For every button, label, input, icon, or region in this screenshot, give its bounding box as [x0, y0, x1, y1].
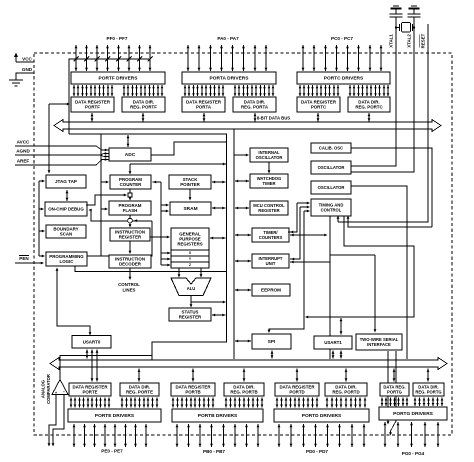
power pin VCC [14, 53, 34, 63]
block TWO-WIRE SERIAL INTERFACE [356, 334, 402, 350]
pin label PF0-PF7 [107, 36, 128, 41]
wire PORTA data register to data bus [203, 113, 206, 122]
wire TWI to port D pins [387, 351, 390, 425]
block DATA REGISTER PORTA [182, 97, 225, 112]
svg-text:REGISTER: REGISTER [258, 208, 279, 213]
block PROGRAMMING LOGIC [46, 252, 87, 266]
svg-text:JTAG TAP: JTAG TAP [55, 179, 77, 184]
wire XTAL1 [351, 17, 396, 166]
block JTAG TAP [46, 175, 86, 188]
wire t&c down 1 [329, 216, 331, 359]
wire IR to registers [150, 236, 170, 239]
wire JTAG rail [39, 180, 45, 258]
block EEPROM [252, 284, 290, 296]
svg-text:ADC: ADC [125, 152, 136, 158]
wire t&c tap 3 [268, 210, 310, 333]
wires PORTC drivers to registers [299, 85, 390, 96]
capacitor + ground at XTAL2 [408, 6, 421, 17]
svg-text:PORTD: PORTD [289, 390, 304, 395]
port F pin arrows [74, 45, 153, 71]
wire USART0 to port E 1 [91, 350, 94, 382]
block USART0 [72, 336, 111, 349]
wire RESET [337, 24, 428, 222]
svg-text:EEPROM: EEPROM [261, 288, 281, 293]
wire PORTG data register to data bus [393, 369, 396, 382]
svg-text:SRAM: SRAM [183, 206, 197, 212]
block DATA REGISTER PORTE [69, 383, 111, 396]
block INTERNAL OSCILLATOR [250, 148, 288, 162]
block DATA DIR. REG. PORTG [413, 383, 444, 396]
wires PORTD registers to drivers [276, 398, 367, 408]
wire twi clock [330, 255, 376, 333]
wire PORTC data register to data bus [317, 113, 320, 122]
wire interrupt unit to bus [235, 260, 251, 263]
wire internal osc to watchdog [268, 162, 271, 174]
wire PORTD data register to data bus [296, 369, 299, 382]
svg-text:AVCC: AVCC [17, 140, 30, 145]
pin label RESET [420, 33, 426, 48]
svg-text:LINES: LINES [123, 288, 136, 293]
wire PORTB data register to data bus [192, 369, 195, 382]
wire MCU control to bus [235, 207, 249, 210]
wire bus lower rail [69, 134, 227, 360]
svg-text:ANALOG: ANALOG [41, 380, 46, 398]
wire ADC to bus [127, 135, 130, 147]
wire t&c tap 2 [290, 206, 310, 261]
block STATUS REGISTER [169, 308, 211, 321]
svg-text:REGISTER: REGISTER [179, 315, 202, 320]
svg-text:LOGIC: LOGIC [60, 259, 75, 264]
wire calib osc routing [351, 148, 432, 227]
svg-text:CONTROL: CONTROL [321, 207, 342, 212]
block PORTC DRIVERS [297, 72, 390, 84]
block STACK POINTER [169, 175, 211, 189]
svg-text:USART0: USART0 [83, 339, 101, 344]
wire TWI to port G pins [389, 351, 396, 436]
svg-text:COUNTER: COUNTER [120, 182, 143, 187]
block TIMING AND CONTROL [311, 199, 351, 216]
wire PORTG data dir reg to data bus [427, 369, 430, 382]
svg-text:PG0 - PG4: PG0 - PG4 [402, 451, 425, 456]
block PORTE DRIVERS [68, 409, 161, 422]
svg-text:PORTA DRIVERS: PORTA DRIVERS [210, 76, 250, 82]
wires PORTG registers to drivers [381, 398, 444, 407]
svg-text:PE0 - PE7: PE0 - PE7 [101, 449, 123, 454]
block OSCILLATOR (xtal) [311, 161, 351, 174]
wire status register to bus [212, 314, 226, 317]
wires PORTA drivers to registers [184, 85, 275, 96]
register Z [171, 262, 209, 268]
svg-text:INTERFACE: INTERFACE [367, 342, 391, 347]
svg-text:REGISTERS: REGISTERS [177, 241, 202, 246]
block INTERRUPT UNIT [252, 254, 289, 268]
svg-text:CALIB. OSC: CALIB. OSC [319, 146, 343, 151]
wire oscillator2 routing [351, 186, 407, 359]
block PORTD DRIVERS [274, 409, 369, 422]
port D pin arrows [278, 424, 366, 447]
svg-text:REG. PORTF: REG. PORTF [130, 105, 157, 110]
svg-text:UNIT: UNIT [266, 261, 276, 266]
chip boundary (dashed) [34, 53, 452, 435]
pin label XTAL1 [389, 34, 394, 48]
svg-text:TIMER: TIMER [262, 181, 275, 186]
wire PORTB data dir reg to data bus [243, 369, 246, 382]
svg-text:REG. PORTE: REG. PORTE [126, 390, 153, 395]
block PROGRAM FLASH [109, 201, 151, 215]
block DATA REGISTER PORTB [171, 383, 215, 396]
8-bit data bus (bottom band) [50, 358, 447, 370]
wire PORTD data dir reg to data bus [345, 369, 348, 382]
register X [171, 250, 209, 256]
svg-text:OSCILLATOR: OSCILLATOR [318, 165, 345, 170]
svg-text:VCC: VCC [22, 57, 32, 62]
port B pin arrows [176, 424, 260, 447]
register Y [171, 256, 209, 262]
port G pin arrows [384, 422, 440, 447]
block ADC [109, 148, 151, 161]
analog comparator [52, 380, 68, 396]
svg-text:POINTER: POINTER [180, 182, 200, 187]
pin AGND [15, 149, 109, 158]
svg-text:PORTF: PORTF [85, 105, 100, 110]
wire t&c down 2 [305, 216, 414, 318]
svg-text:REGISTER: REGISTER [119, 235, 142, 240]
wire flash write rail [101, 134, 109, 256]
wire PORTF data register to data bus [91, 113, 94, 122]
wire USART0 to bus [86, 350, 89, 359]
pin label PA0-PA7 [217, 36, 239, 41]
svg-text:PEN: PEN [19, 256, 29, 261]
block OSCILLATOR (tosc) [311, 181, 351, 194]
wire decoder to control lines [129, 268, 132, 280]
svg-text:OSCILLATOR: OSCILLATOR [256, 155, 283, 160]
block DATA DIR. REG. PORTF [122, 97, 165, 112]
block PORTG DRIVERS [379, 407, 447, 420]
wire PORTA data dir reg to data bus [254, 113, 257, 122]
svg-text:USART1: USART1 [324, 340, 342, 345]
pin label PB0-PB7 [203, 449, 225, 454]
svg-text:DECODER: DECODER [119, 262, 142, 267]
wire timer to timing vertical [290, 234, 330, 264]
wire SPI to bus lower [271, 351, 274, 359]
block DATA REGISTER PORTF [71, 97, 114, 112]
label ANALOG COMPARATOR [41, 374, 52, 404]
wire comparator input 2 [52, 395, 64, 447]
pin label PD0-PD7 [306, 449, 328, 454]
svg-text:PORTF DRIVERS: PORTF DRIVERS [99, 76, 139, 82]
wire registers to ALU [178, 268, 203, 278]
wire EEPROM to bus [235, 289, 251, 292]
block BOUNDARY SCAN [46, 225, 86, 238]
svg-text:REG. PORTD: REG. PORTD [332, 390, 359, 395]
svg-text:PB0 - PB7: PB0 - PB7 [203, 449, 225, 454]
svg-text:AGND: AGND [16, 149, 30, 154]
wire comparator output [60, 356, 152, 380]
block PORTA DRIVERS [182, 72, 276, 84]
wire register rail [153, 181, 171, 267]
block DATA REG. PORTG [380, 383, 409, 396]
wire bus to internal oscillator [234, 154, 249, 157]
block INSTRUCTION DECODER [109, 255, 151, 268]
svg-text:COUNTERS: COUNTERS [259, 235, 283, 240]
svg-text:REG. PORTC: REG. PORTC [355, 105, 383, 110]
wire comparator input 1 [48, 395, 56, 447]
svg-text:PORTB: PORTB [185, 390, 200, 395]
pin AREF [15, 158, 109, 165]
svg-text:REG. PORTA: REG. PORTA [241, 105, 269, 110]
block SPI [252, 334, 291, 349]
wire adder2 to instruction register [129, 223, 132, 228]
label CONTROL LINES [118, 282, 140, 293]
block DATA DIR. REG. PORTD [325, 383, 367, 396]
port C pin arrows [302, 45, 383, 71]
svg-text:PORTC: PORTC [311, 105, 327, 110]
wire ADC output to rail [151, 142, 227, 155]
block SRAM [170, 202, 211, 215]
wire PORTC data dir reg to data bus [368, 113, 371, 122]
crystal X1 [395, 23, 415, 33]
svg-text:SPI: SPI [268, 339, 275, 344]
bus label 8-BIT DATA BUS [257, 116, 290, 121]
svg-text:ALU: ALU [187, 286, 196, 291]
wire stack pointer to SRAM [189, 189, 192, 201]
block DATA DIR. REG. PORTA [233, 97, 276, 112]
wire osc to timing and control [347, 216, 432, 228]
svg-text:SCAN: SCAN [60, 232, 72, 237]
wire PORTF data dir reg to data bus [142, 113, 145, 122]
wire timer counters to bus [235, 234, 251, 237]
pin label PG0-PG4 [402, 451, 425, 456]
svg-text:PC0 - PC7: PC0 - PC7 [331, 36, 353, 41]
svg-text:PORTD DRIVERS: PORTD DRIVERS [302, 413, 342, 419]
svg-text:PA0 - PA7: PA0 - PA7 [217, 36, 239, 41]
wire usart1 clock [340, 318, 343, 335]
svg-text:PORTE: PORTE [82, 390, 97, 395]
pin PEN [15, 256, 44, 265]
wire t&c tap 1 [288, 202, 310, 234]
adder node 2 [128, 218, 133, 223]
port E pin arrows [73, 424, 148, 447]
wires PORTF drivers to registers [73, 85, 164, 96]
block DATA REGISTER PORTD [275, 383, 319, 396]
block PORTB DRIVERS [172, 409, 263, 422]
block DATA DIR. REG. PORTE [120, 383, 159, 396]
svg-text:PORTA: PORTA [196, 105, 212, 110]
wire stack pointer to bus [212, 181, 226, 184]
svg-text:PORTG: PORTG [387, 389, 402, 394]
svg-text:FLASH: FLASH [123, 208, 138, 213]
wire PORTE data dir reg to data bus [138, 369, 141, 382]
adder node 1 [128, 193, 132, 197]
wire watchdog to bus [235, 180, 249, 183]
8-bit data bus (top band) [54, 120, 441, 132]
svg-text:PORTE DRIVERS: PORTE DRIVERS [95, 413, 135, 419]
svg-text:PORTG DRIVERS: PORTG DRIVERS [393, 411, 434, 417]
svg-text:PORTC DRIVERS: PORTC DRIVERS [324, 76, 364, 82]
block DATA DIR. REG. PORTC [348, 97, 390, 112]
capacitor + ground at XTAL1 [390, 6, 403, 17]
ALU [171, 278, 211, 296]
wire OCD to adder [86, 194, 127, 205]
port A pin arrows [187, 45, 268, 71]
wire analog tap from port F [69, 59, 149, 134]
svg-text:OSCILLATOR: OSCILLATOR [318, 185, 345, 190]
wire port F to JTAG TAP [48, 103, 70, 174]
wire ALU output [190, 296, 226, 308]
wire USART1 to bus a [332, 351, 335, 359]
block PORTF DRIVERS [71, 72, 165, 84]
pin label PC0-PC7 [331, 36, 353, 41]
wire bus to program counter [129, 163, 227, 175]
wire flash data loop [87, 209, 152, 256]
ground pin GND [9, 67, 34, 86]
wire flash to adder2 [129, 215, 131, 218]
wire IR to decoder [129, 241, 132, 254]
wire JTAG TAP to OCD [66, 190, 69, 201]
wire SPI to bus [235, 340, 251, 343]
svg-text:PD0 - PD7: PD0 - PD7 [306, 449, 328, 454]
svg-text:REG. PORTG: REG. PORTG [415, 389, 441, 394]
wire USART1 to bus b [340, 351, 343, 359]
svg-text:PORTB DRIVERS: PORTB DRIVERS [198, 413, 238, 419]
block TIMER/COUNTERS [252, 228, 289, 242]
block PROGRAM COUNTER [110, 175, 151, 189]
svg-text:XTAL2: XTAL2 [407, 34, 412, 48]
svg-text:XTAL1: XTAL1 [389, 34, 394, 48]
block USART1 [314, 336, 352, 349]
wire SRAM to bus [212, 207, 226, 210]
svg-text:AREF: AREF [17, 159, 30, 164]
block GENERAL PURPOSE REGISTERS [171, 228, 209, 250]
svg-text:Z: Z [189, 263, 191, 267]
wire USART0 to port E 2 [96, 350, 99, 382]
svg-text:8-BIT DATA BUS: 8-BIT DATA BUS [257, 116, 290, 121]
svg-text:PF0 - PF7: PF0 - PF7 [107, 36, 128, 41]
wire programming logic control line [75, 266, 227, 272]
block DATA DIR. REG. PORTB [224, 383, 264, 396]
wire XTAL2 [351, 17, 414, 172]
block WATCHDOG TIMER [250, 174, 288, 188]
block DATA REGISTER PORTC [297, 97, 340, 112]
svg-text:CONTROL: CONTROL [118, 282, 140, 287]
block CALIB. OSC [311, 143, 351, 153]
pin label PE0-PE7 [101, 449, 123, 454]
wires PORTE registers to drivers [70, 398, 159, 408]
block INSTRUCTION REGISTER [110, 228, 150, 241]
wires PORTB registers to drivers [172, 398, 264, 408]
pin AVCC [15, 140, 109, 152]
block MCU CONTROL REGISTER [250, 201, 288, 215]
wire programming logic to USART0 [56, 268, 92, 336]
block ON-CHIP DEBUG [45, 202, 87, 216]
svg-text:GND: GND [22, 67, 33, 72]
pin label XTAL2 [407, 34, 412, 48]
svg-text:REG. PORTB: REG. PORTB [230, 390, 257, 395]
svg-text:COMPARATOR: COMPARATOR [46, 374, 51, 404]
wire adder to flash [129, 197, 132, 200]
wire right bus rail [233, 129, 235, 359]
wire registers to bus [210, 237, 226, 240]
svg-text:ON-CHIP DEBUG: ON-CHIP DEBUG [48, 207, 84, 212]
wire PC to adder [129, 189, 131, 193]
svg-text:RESET: RESET [421, 33, 426, 48]
